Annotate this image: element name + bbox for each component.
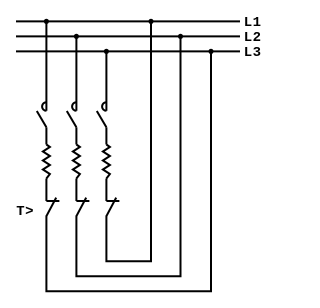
svg-text:L1: L1 [244, 15, 262, 31]
wire heater to trip contact pole 2 [75, 179, 77, 202]
wire heater to trip contact pole 3 [105, 179, 107, 202]
switch contact Q1 pole 3 fixed hook [102, 102, 106, 111]
wire return path pole 3 [106, 21, 151, 261]
trip contact T pole 2 blade [76, 198, 86, 217]
trip contact T pole 1 blade [46, 198, 56, 217]
wire heater to trip contact pole 1 [45, 179, 47, 202]
trip contact T pole 2 end stop [76, 200, 89, 202]
node junction L3 left tap [104, 49, 109, 54]
node junction L2 left tap [74, 34, 79, 39]
svg-text:L2: L2 [244, 30, 262, 46]
switch contact Q1 pole 2 fixed hook [72, 102, 76, 111]
wire phase bus L2 [16, 35, 240, 37]
trip contact T pole 3 blade [106, 198, 116, 217]
switch contact Q1 pole 2 blade [67, 111, 77, 127]
wire L3 drop to switch pole 3 [105, 51, 107, 110]
wire switch to heater pole 1 [45, 127, 47, 144]
node junction L3 right tap [208, 49, 213, 54]
thermal overload heater element pole 1 [43, 145, 50, 179]
trip contact T pole 3 end stop [106, 200, 119, 202]
node junction L1 right tap [148, 19, 153, 24]
switch contact Q1 pole 3 blade [97, 111, 107, 127]
wire phase bus L1 [16, 20, 240, 22]
wire switch to heater pole 3 [105, 127, 107, 144]
svg-text:L3: L3 [244, 45, 262, 61]
wire L1 drop to switch pole 1 [45, 21, 47, 110]
wire return path pole 1 [46, 51, 211, 291]
wire switch to heater pole 2 [75, 127, 77, 144]
wire L2 drop to switch pole 2 [75, 36, 77, 110]
switch contact Q1 pole 1 blade [37, 111, 47, 127]
svg-text:T>: T> [16, 204, 34, 220]
switch contact Q1 pole 1 fixed hook [42, 102, 46, 111]
wire return path pole 2 [76, 36, 180, 276]
trip contact T pole 1 end stop [46, 200, 59, 202]
wire phase bus L3 [16, 50, 240, 52]
node junction L2 right tap [178, 34, 183, 39]
thermal overload heater element pole 3 [103, 145, 110, 179]
thermal overload heater element pole 2 [73, 145, 80, 179]
node junction L1 left tap [44, 19, 49, 24]
